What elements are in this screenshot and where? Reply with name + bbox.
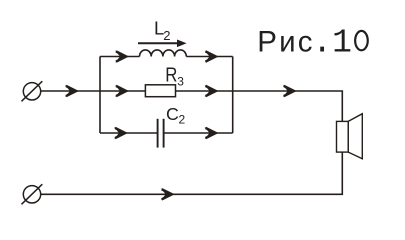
wire speaker to bottom rail (41, 152, 343, 194)
caption Рис.10 (257, 24, 368, 61)
wire C2 branch right (164, 132, 233, 134)
arrow into C2 (114, 127, 125, 139)
speaker LS1 cone (348, 114, 362, 159)
current arrow over L2 (138, 40, 187, 48)
terminal J1 (top input) (22, 81, 43, 101)
wire C2 branch left (100, 132, 158, 134)
arrow into R3 (115, 85, 126, 97)
wire L2 branch left (100, 56, 140, 58)
arrow out of L2 (205, 50, 216, 62)
wire R3 branch right (176, 90, 233, 92)
node right junction vertical (232, 57, 234, 134)
terminal J2 (bottom input) (22, 184, 43, 204)
arrow out of R3 (205, 85, 216, 97)
capacitor C2 (158, 119, 164, 148)
label R3 (165, 63, 184, 89)
svg-text:2: 2 (179, 113, 186, 127)
speaker LS1 body (337, 121, 349, 152)
arrow on input wire (65, 85, 76, 97)
wire L2 branch right (186, 56, 232, 58)
svg-text:Рис: Рис (257, 25, 315, 58)
svg-text:C: C (166, 104, 179, 124)
wire input middle rail (41, 90, 100, 92)
wire output top (233, 91, 343, 121)
arrow out of C2 (205, 127, 216, 139)
label C2 (166, 104, 186, 127)
arrow on bottom wire (161, 188, 172, 200)
svg-text:.1: .1 (312, 24, 352, 61)
svg-text:2: 2 (163, 28, 170, 43)
wire R3 branch left (100, 90, 145, 92)
svg-text:R: R (165, 63, 177, 86)
svg-text:3: 3 (177, 75, 184, 89)
arrow into L2 (115, 50, 126, 62)
label L2 (154, 18, 170, 43)
arrow on output wire (283, 85, 294, 97)
inductor L2 (140, 50, 187, 57)
node left junction vertical (99, 57, 101, 134)
resistor R3 (145, 85, 175, 97)
